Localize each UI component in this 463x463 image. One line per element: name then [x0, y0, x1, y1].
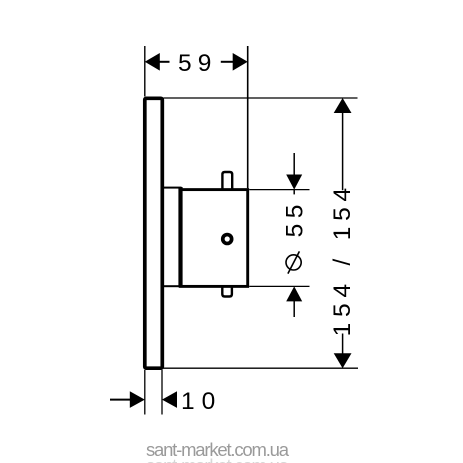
dim Ø55: diameter symbol circle: [286, 255, 301, 270]
dim 10: right arrow (pointing left): [162, 391, 177, 408]
body left edge (thick): [178, 187, 182, 288]
dim 59: left extension line: [144, 46, 146, 97]
svg-text:55: 55: [282, 199, 309, 237]
dim 59: right arrow: [233, 53, 248, 71]
dim Ø55: top arrow (pointing down): [286, 175, 302, 190]
bottom stop tab on body: [222, 287, 232, 297]
thermostat body: [181, 190, 248, 287]
dim 154/154: top arrow: [334, 98, 352, 113]
dim Ø55: top extension line: [249, 189, 309, 191]
dim 59: right extension line: [247, 46, 249, 188]
dim 10: left tail: [110, 399, 131, 401]
dim 10: right extension line: [161, 370, 163, 415]
dim 59: right tail: [221, 61, 233, 63]
center screw ring on body: [223, 235, 232, 244]
dim Ø55: bottom extension line: [249, 285, 309, 287]
collar flange between plate and body: [162, 188, 180, 287]
dim 59: left tail: [160, 61, 170, 63]
dim Ø55: lower leader line: [293, 301, 295, 317]
dim 59: left arrow: [145, 53, 160, 71]
dim 154/154: top extension line: [164, 97, 358, 99]
svg-text:59: 59: [178, 50, 218, 77]
dim 154/154: bottom arrow: [334, 353, 352, 368]
svg-text:sant-market.com.ua: sant-market.com.ua: [146, 455, 290, 463]
dim Ø55: bottom arrow (pointing up): [286, 286, 302, 301]
dim Ø55: upper leader line: [293, 153, 295, 175]
svg-text:10: 10: [181, 388, 222, 415]
top stop tab on body: [222, 172, 232, 190]
dim 10: left arrow (pointing right): [130, 391, 145, 408]
dim 154/154: upper line segment: [342, 112, 344, 190]
wall plate (escutcheon, side view): [145, 98, 163, 368]
dim Ø55: stub below top arrow: [293, 190, 295, 195]
dim 154/154: lower line segment: [342, 334, 344, 355]
dim 10: left extension line: [144, 370, 146, 415]
dim 154/154: bottom extension line: [164, 367, 359, 369]
svg-text:154 / 154: 154 / 154: [329, 182, 356, 336]
dim Ø55: diameter symbol slash: [288, 251, 300, 273]
